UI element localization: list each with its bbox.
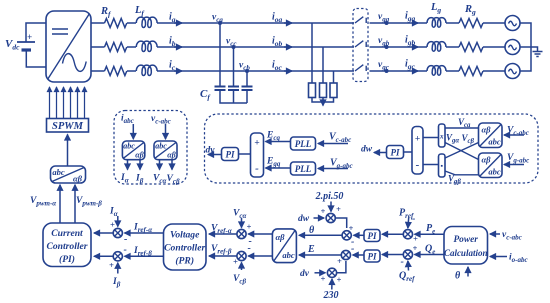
summer P	[403, 230, 418, 244]
svg-text:Vcα: Vcα	[153, 174, 166, 186]
svg-text:ioc: ioc	[272, 60, 283, 73]
capacitor Cf b	[228, 87, 239, 91]
svg-text:ioa: ioa	[272, 12, 283, 25]
wire Qref into Q summer	[407, 261, 410, 271]
svg-text:-: -	[416, 159, 420, 171]
load resistor b	[320, 83, 327, 98]
PLL block 2	[291, 162, 316, 175]
svg-text:Iβ: Iβ	[135, 174, 144, 186]
wire Vc-beta out	[171, 160, 173, 170]
wire summer2 to multiplier1	[423, 137, 439, 139]
svg-text:vca: vca	[212, 13, 223, 25]
svg-text:+: +	[254, 139, 259, 149]
Voltage Controller block	[164, 224, 207, 270]
wire abc-ab transform to SPWM	[67, 135, 69, 167]
transform abc to alpha-beta (voltage)	[154, 141, 177, 160]
node vgc	[385, 69, 389, 73]
wire theta into Power Calculation	[467, 267, 469, 277]
wire P summer to PI	[382, 233, 403, 235]
svg-text:dv: dv	[300, 269, 310, 279]
svg-text:abc: abc	[52, 167, 65, 177]
wire summer A to summer B	[335, 218, 346, 228]
wire vcc node to capacitor 2	[233, 47, 235, 87]
Current Controller block	[43, 223, 91, 267]
svg-text:PLL: PLL	[295, 164, 312, 174]
svg-text:Iref-β: Iref-β	[133, 246, 152, 258]
grid line c	[370, 70, 506, 72]
wire theta to transform	[299, 234, 342, 236]
svg-text:Vpwm-α: Vpwm-α	[30, 196, 56, 208]
grid line a: switch to source	[370, 22, 506, 24]
summer A (dw + 2.pi.50)	[326, 213, 335, 222]
svg-text:PI: PI	[226, 150, 235, 160]
current iob arrow	[284, 46, 292, 48]
svg-text:+: +	[110, 220, 115, 230]
node vcc	[232, 45, 236, 49]
PI block (Q loop)	[364, 250, 380, 262]
wire 230 into summer C	[331, 279, 333, 290]
PI block (voltage sync)	[222, 148, 239, 161]
wire Q summer to PI2	[382, 254, 403, 256]
svg-text:abc: abc	[488, 137, 501, 147]
svg-text:vcc: vcc	[226, 37, 236, 49]
svg-text:Lg: Lg	[430, 2, 441, 15]
svg-text:Iα: Iα	[120, 173, 129, 185]
wire Vc-beta cross to multiplier2	[445, 143, 479, 159]
phase line c	[91, 70, 354, 72]
wire Vpwm-alpha into transform	[59, 185, 61, 223]
wire battery top to inverter	[26, 23, 46, 42]
svg-text:-: -	[401, 257, 404, 268]
svg-text:Calculation: Calculation	[444, 248, 488, 258]
wire Vg-alpha cross to multiplier1	[445, 143, 479, 160]
wire 2.pi.50 into summer A	[330, 202, 332, 212]
svg-text:Vg-abc: Vg-abc	[507, 153, 529, 164]
inverter DC symbol	[52, 29, 68, 34]
svg-text:+: +	[109, 260, 114, 270]
svg-text:vcb: vcb	[239, 61, 250, 73]
svg-text:-: -	[124, 245, 127, 256]
svg-text:abc: abc	[488, 167, 501, 177]
SPWM block	[47, 119, 89, 133]
AC source c	[505, 64, 520, 79]
transform ab-abc (Vg)	[479, 153, 503, 178]
svg-text:+: +	[321, 274, 326, 284]
svg-text:ib: ib	[169, 36, 176, 49]
capacitor Cf a	[215, 87, 226, 91]
svg-text:SPWM: SPWM	[52, 121, 84, 132]
svg-text:Controller: Controller	[164, 243, 205, 254]
node vcb	[245, 69, 249, 73]
grid line b	[370, 46, 506, 48]
svg-text:Pe: Pe	[426, 223, 435, 236]
svg-text:vc-abc: vc-abc	[151, 114, 171, 126]
wire I-alpha out	[127, 160, 129, 170]
wire transform to S4	[248, 255, 272, 257]
svg-text:αβ: αβ	[135, 151, 144, 160]
node vgb	[385, 45, 389, 49]
wire S2 to Current Controller	[94, 255, 113, 257]
svg-text:(PR): (PR)	[175, 256, 194, 267]
AC source b	[505, 40, 520, 55]
wire vca node to capacitor 1	[219, 23, 221, 87]
svg-text:-: -	[351, 244, 354, 255]
wire PI to summer B	[354, 234, 364, 236]
svg-text:+: +	[27, 32, 32, 42]
svg-text:Iα: Iα	[109, 207, 118, 219]
wire Vpwm-beta into transform	[74, 185, 76, 223]
node vga	[385, 21, 389, 25]
wire Iref-alpha into S1	[125, 232, 164, 234]
svg-text:-: -	[248, 243, 251, 254]
wire I-alpha into summer S1	[117, 216, 119, 227]
svg-text:Lf: Lf	[134, 5, 145, 18]
wire summer2 to multiplier2	[423, 164, 439, 166]
current ioa arrow	[284, 22, 292, 24]
svg-text:Current: Current	[51, 228, 83, 239]
wire to ground	[531, 47, 538, 51]
phase line b	[91, 46, 354, 48]
inductor Lf phase a	[136, 17, 157, 27]
PLL block 1	[291, 137, 316, 150]
svg-text:vgc: vgc	[378, 60, 389, 72]
capacitor bottom bus wire	[220, 90, 247, 103]
ground	[533, 52, 543, 57]
summer B (theta)	[342, 231, 354, 248]
svg-text:+: +	[336, 204, 341, 214]
summer S2	[109, 245, 127, 271]
load resistor a	[309, 83, 316, 98]
svg-text:2.pi.50: 2.pi.50	[315, 191, 344, 202]
wire vc-abc into Power Calculation	[490, 233, 500, 235]
wire Vca: transform1 to multiplier1	[445, 127, 479, 129]
svg-text:igb: igb	[405, 35, 416, 48]
transform abc to alpha-beta (PWM)	[51, 166, 86, 183]
load resistor c	[330, 83, 337, 98]
wire I-beta into summer S2	[117, 263, 119, 274]
svg-text:ic: ic	[169, 60, 176, 73]
resistor Rg phase b	[459, 43, 483, 52]
AC source a	[505, 16, 520, 31]
svg-text:αβ: αβ	[481, 125, 491, 135]
resistor Rg phase c	[459, 67, 483, 76]
capacitor Cf c	[242, 87, 253, 91]
svg-text:Vc-abc: Vc-abc	[329, 132, 351, 145]
svg-text:+: +	[413, 243, 418, 253]
svg-text:abc: abc	[123, 142, 135, 151]
inverter AC sine symbol	[63, 54, 87, 72]
svg-text:dw: dw	[298, 214, 310, 224]
svg-text:Power: Power	[453, 235, 478, 245]
svg-text:vc-abc: vc-abc	[502, 230, 522, 242]
svg-text:+: +	[415, 135, 420, 145]
summer C (dv + 230)	[321, 268, 342, 284]
inverter diagonal	[48, 14, 90, 80]
wire dw into summer A	[314, 217, 325, 219]
wire PLL1 to summer Ecq	[266, 141, 291, 143]
summer S3	[237, 222, 252, 248]
multiplier 1	[439, 124, 446, 147]
current ia arrow	[174, 22, 182, 24]
wire Pe from Power Calculation	[415, 233, 444, 235]
svg-text:+: +	[233, 257, 238, 267]
current ic arrow	[174, 70, 182, 72]
load bottom bus and arrow	[312, 98, 334, 103]
wire S1 to Current Controller	[94, 232, 113, 234]
svg-text:Vcβ: Vcβ	[233, 274, 246, 286]
svg-text:+: +	[247, 222, 252, 232]
switch blade a	[355, 17, 366, 23]
svg-text:PI: PI	[368, 231, 377, 241]
wire S3 to Voltage Controller	[209, 233, 237, 235]
inductor Lf phase b	[136, 41, 157, 51]
summer S4	[233, 243, 251, 267]
resistor Rf phase c	[105, 67, 127, 76]
node vca	[218, 21, 222, 25]
current ib arrow	[174, 46, 182, 48]
svg-text:Cf: Cf	[200, 88, 211, 102]
svg-text:αβ: αβ	[275, 232, 285, 242]
wire battery bottom to inverter	[26, 50, 46, 67]
wire Pref into P summer	[407, 218, 410, 229]
inductor Lg phase a	[427, 18, 446, 28]
svg-text:+: +	[321, 206, 326, 216]
wire Vc-alpha into summer S3	[241, 218, 243, 228]
wire vcb node to capacitor 3	[246, 71, 248, 87]
measurement dashed box	[114, 111, 187, 185]
PLL synchronisation dashed box	[205, 114, 539, 183]
wire summer2 to PI	[404, 151, 413, 153]
current igc arrow	[412, 70, 418, 72]
svg-text:(PI): (PI)	[59, 254, 75, 265]
svg-text:-: -	[412, 214, 415, 225]
svg-text:θ: θ	[309, 225, 315, 236]
wire summer to PI	[239, 153, 251, 155]
svg-text:abc: abc	[282, 250, 295, 260]
wire E to transform	[299, 254, 342, 256]
svg-text:Vg-abc: Vg-abc	[330, 158, 353, 171]
svg-text:+: +	[413, 234, 418, 244]
svg-text:αβ: αβ	[481, 155, 491, 165]
inductor Lg phase b	[427, 42, 446, 52]
svg-text:-: -	[124, 234, 127, 245]
wire Vc-beta into summer S4	[241, 263, 243, 271]
svg-text:Vref-β: Vref-β	[211, 244, 232, 256]
wire PI2 to summer D	[353, 254, 364, 256]
PI block (P loop)	[364, 230, 380, 242]
svg-text:iob: iob	[272, 36, 283, 49]
svg-text:+: +	[337, 275, 342, 285]
summer D (E)	[337, 244, 354, 267]
summer S1	[110, 220, 127, 246]
wire summer C to summer D	[337, 261, 346, 273]
switch dashed box	[353, 9, 368, 82]
current igb arrow	[412, 46, 418, 48]
svg-text:Vdc: Vdc	[5, 38, 20, 52]
svg-text:PLL: PLL	[295, 139, 312, 149]
wire dv into summer C	[315, 272, 326, 274]
svg-text:Qe: Qe	[425, 244, 435, 257]
summer 2	[412, 127, 423, 175]
SPWM gate drive arrows to inverter	[50, 87, 85, 118]
wire Vg-beta to multiplier2	[445, 171, 479, 175]
svg-text:Vc-abc: Vc-abc	[507, 126, 529, 137]
wire load tap c	[333, 71, 335, 83]
Power Calculation block	[444, 227, 488, 265]
PI block (freq sync)	[387, 146, 404, 159]
wire Vc-alpha out	[159, 160, 161, 170]
svg-text:vgb: vgb	[378, 36, 390, 48]
svg-text:+: +	[337, 256, 342, 266]
svg-text:Rf: Rf	[100, 6, 112, 19]
svg-text:iga: iga	[405, 11, 416, 24]
arrow PI to dw	[374, 152, 386, 154]
resistor Rf phase b	[105, 43, 127, 52]
svg-text:αβ: αβ	[73, 174, 83, 184]
svg-text:Vref-α: Vref-α	[211, 224, 232, 236]
svg-text:Iβ: Iβ	[112, 277, 121, 289]
svg-text:vga: vga	[378, 12, 390, 24]
current ioc arrow	[284, 70, 292, 72]
svg-text:Ecq: Ecq	[266, 131, 280, 143]
svg-text:ia: ia	[169, 12, 176, 25]
wire iabc into transform1	[132, 124, 134, 139]
resistor Rf phase a	[105, 19, 127, 28]
svg-text:abc: abc	[155, 142, 167, 151]
wire load tap a	[311, 23, 313, 83]
svg-text:-: -	[255, 163, 259, 175]
transform abc to alpha-beta (current)	[122, 141, 144, 160]
svg-text:E: E	[307, 244, 315, 255]
current iga arrow	[412, 22, 418, 24]
wire transform to S3	[248, 233, 272, 235]
resistor Rg phase a	[459, 19, 483, 28]
grid neutral bus wire	[520, 23, 531, 71]
svg-text:dw: dw	[361, 145, 373, 155]
wire PLL2 to summer Egq	[266, 167, 291, 169]
svg-text:Vcβ: Vcβ	[167, 174, 180, 186]
summer (Ecq-Egq)	[251, 133, 264, 177]
inverter U1 box	[46, 11, 91, 82]
svg-text:Vcβ: Vcβ	[462, 133, 475, 145]
svg-text:x: x	[439, 133, 444, 141]
svg-text:iabc: iabc	[121, 114, 134, 126]
svg-text:Egq: Egq	[266, 157, 281, 169]
wire Vg-abc into transform	[504, 164, 524, 166]
svg-text:Iref-α: Iref-α	[133, 223, 152, 235]
wire I-beta out	[139, 160, 141, 170]
svg-text:PI: PI	[368, 252, 377, 262]
summer Q	[401, 243, 418, 268]
svg-text:Vcα: Vcα	[233, 209, 246, 221]
wire Vc-abc into PLL1	[318, 143, 348, 145]
switch blade c	[355, 65, 366, 71]
wire vc-abc into transform2	[165, 124, 167, 139]
wire Iref-beta into S2	[125, 255, 164, 257]
svg-text:230: 230	[323, 290, 339, 301]
switch blade b	[355, 41, 366, 47]
svg-text:PI: PI	[391, 148, 400, 158]
svg-text:Vpwm-β: Vpwm-β	[76, 196, 102, 208]
inductor Lg phase c	[427, 66, 446, 76]
inductor Lf phase c	[136, 65, 157, 75]
svg-text:io-abc: io-abc	[509, 253, 528, 265]
wire Vg-abc into PLL2	[318, 168, 348, 170]
wire io-abc into Power Calculation	[490, 256, 507, 258]
svg-text:Vgα: Vgα	[446, 133, 459, 145]
svg-text:αβ: αβ	[167, 151, 176, 160]
transform ab-abc (Vc)	[479, 123, 503, 148]
wire Qe from Power Calculation	[415, 254, 444, 256]
wire load tap b	[322, 47, 324, 83]
svg-text:Rg: Rg	[464, 4, 476, 17]
arrow PI to dv	[208, 154, 221, 156]
svg-text:θ: θ	[455, 271, 461, 282]
wire Vc-abc into transform	[504, 134, 524, 136]
transform ab to abc (reference)	[272, 229, 296, 263]
svg-text:Controller: Controller	[46, 241, 87, 252]
battery symbol	[17, 32, 35, 50]
svg-text:Voltage: Voltage	[170, 230, 200, 241]
phase line a: inverter to switch	[91, 22, 354, 24]
svg-text:igc: igc	[405, 59, 416, 72]
svg-text:Qref: Qref	[399, 271, 415, 284]
multiplier 2	[439, 154, 446, 177]
wire S4 to Voltage Controller	[209, 255, 237, 257]
